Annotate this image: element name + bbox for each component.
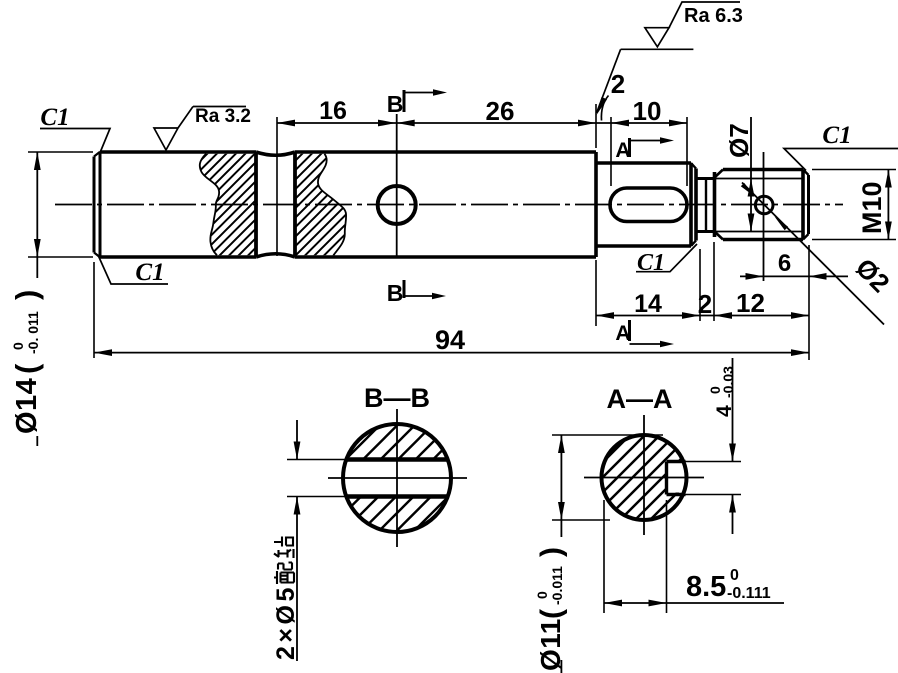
svg-text:A: A — [615, 139, 630, 162]
break hatched lobe left — [200, 154, 256, 255]
surface finish Ra 3.2 — [193, 106, 246, 108]
svg-text:14: 14 — [634, 290, 662, 318]
svg-text:(: ( — [9, 363, 44, 374]
surface finish Ra 6.3 — [669, 2, 740, 28]
svg-text:-0.111: -0.111 — [727, 585, 771, 602]
svg-text:Ra 3.2: Ra 3.2 — [195, 106, 251, 127]
label 2xphi5 peizuan rotated — [272, 537, 300, 661]
svg-text:A: A — [615, 322, 630, 345]
section mark A top — [628, 138, 631, 157]
svg-text:(: ( — [535, 609, 568, 619]
svg-text:-0.03: -0.03 — [720, 366, 736, 398]
extension line shoulder top x=596 — [595, 104, 597, 148]
cross hole phi5 — [378, 186, 416, 224]
svg-text:-0.011: -0.011 — [549, 566, 565, 605]
arrows top row — [277, 120, 687, 127]
A-A keyway notch white — [668, 463, 688, 493]
svg-text:26: 26 — [486, 96, 515, 126]
B-B dim line 2xphi5 — [296, 420, 298, 661]
B-B vertical centerline — [396, 409, 398, 547]
svg-text:16: 16 — [319, 97, 347, 125]
B-B hole extension lines — [287, 460, 346, 497]
svg-text:2: 2 — [611, 69, 625, 99]
dim line 16/26/10 — [277, 122, 687, 124]
A-A vertical centerline — [643, 415, 645, 535]
svg-text:6: 6 — [778, 250, 791, 277]
ext x=94 — [93, 262, 95, 358]
svg-text:B—B: B—B — [364, 383, 430, 413]
section mark B bottom — [403, 280, 406, 298]
A-A outline circle — [602, 435, 687, 520]
B-B hatched disc — [343, 424, 451, 532]
glyph zuan — [274, 537, 294, 559]
cross hole phi2 — [755, 196, 773, 214]
B-B horizontal centerline — [328, 477, 467, 479]
A-A dim phi11 — [560, 435, 562, 673]
svg-text:Ø7: Ø7 — [724, 123, 754, 158]
dim text 4 tolerance rotated — [707, 366, 736, 417]
svg-text:B: B — [387, 280, 404, 306]
ext x=809 — [808, 245, 810, 360]
section mark B top — [403, 90, 406, 112]
svg-text:Ø14: Ø14 — [11, 378, 43, 434]
A-A dim 4 — [732, 358, 734, 534]
DIMENSION M10 — [887, 170, 889, 240]
svg-text:2×Ø5: 2×Ø5 — [272, 584, 300, 660]
svg-text:0: 0 — [534, 591, 550, 599]
ext x=596 bottom — [595, 260, 597, 326]
svg-text:C1: C1 — [40, 104, 69, 131]
relief groove phi7 — [696, 179, 715, 232]
svg-text:Ø11: Ø11 — [535, 618, 566, 671]
dim text phi11 rotated — [534, 547, 568, 671]
B-B hole band white — [340, 461, 454, 494]
leader phi2 diagonal — [742, 183, 884, 325]
ext x=700 — [699, 249, 701, 321]
svg-text:4: 4 — [713, 405, 736, 417]
break lobe right wavy edge — [318, 154, 346, 255]
section mark A bottom — [628, 320, 631, 341]
svg-text:B: B — [387, 91, 404, 117]
extension line break x=277 — [276, 117, 278, 256]
A-A hatched disc — [602, 435, 687, 520]
B-B hole edge chords — [346, 460, 449, 497]
A-A keyway notch outline — [667, 462, 686, 495]
svg-text:94: 94 — [435, 325, 465, 355]
ext lines phi14 — [28, 152, 93, 257]
shaft left end face and chamfer C1 — [94, 152, 100, 258]
A-A horizontal centerline — [584, 477, 704, 479]
A-A keyway width extension lines — [686, 462, 742, 495]
svg-text:Ra 6.3: Ra 6.3 — [684, 5, 743, 27]
svg-text:A—A: A—A — [607, 384, 673, 414]
break edge line left — [254, 152, 258, 257]
hole vertical centerline / section plane B — [396, 114, 398, 257]
svg-text:12: 12 — [736, 288, 765, 318]
break edge line right — [293, 152, 297, 257]
dim text phi14 rotated — [9, 290, 44, 434]
keyway slot (front view, stadium) — [610, 188, 687, 222]
B-B outline circle — [343, 424, 451, 532]
DIMENSION phi14 left — [36, 152, 38, 278]
extension line keyway x=687 — [686, 117, 688, 186]
A-A dim 8.5 — [604, 602, 784, 604]
svg-text:0: 0 — [730, 567, 739, 584]
thread minor diameter thin lines — [715, 179, 804, 232]
phi11 keyway section edges — [596, 163, 696, 246]
DIMENSION 6 — [740, 275, 848, 277]
svg-text:10: 10 — [633, 96, 662, 126]
break lobe left wavy edge — [200, 154, 219, 255]
shaft centerline — [55, 204, 843, 206]
svg-text:2: 2 — [698, 289, 712, 319]
shoulder at x=596 — [594, 152, 598, 257]
glyph pei — [274, 563, 294, 585]
svg-text:M10: M10 — [857, 181, 887, 234]
svg-text:8.5: 8.5 — [686, 571, 726, 603]
svg-text:C1: C1 — [135, 259, 164, 286]
M10 thread section — [715, 170, 809, 240]
extension line keyway x=611 — [610, 117, 612, 186]
svg-text:C1: C1 — [822, 122, 851, 149]
break hatched lobe right — [295, 154, 346, 255]
DIMENSION phi7 (thread root) — [750, 117, 752, 232]
shaft body phi14: top and bottom edges with break sag — [100, 152, 596, 257]
svg-text:-0. 011: -0. 011 — [25, 311, 41, 354]
svg-text:): ) — [9, 290, 44, 300]
DIMENSIONS 14/2/12 row y=315.5 — [596, 315, 809, 317]
phi2 hole vertical centerline — [763, 152, 765, 281]
svg-text:): ) — [535, 547, 568, 557]
ext x=714 — [713, 242, 715, 321]
DIMENSION 94 — [94, 352, 809, 354]
svg-text:0: 0 — [10, 342, 26, 350]
